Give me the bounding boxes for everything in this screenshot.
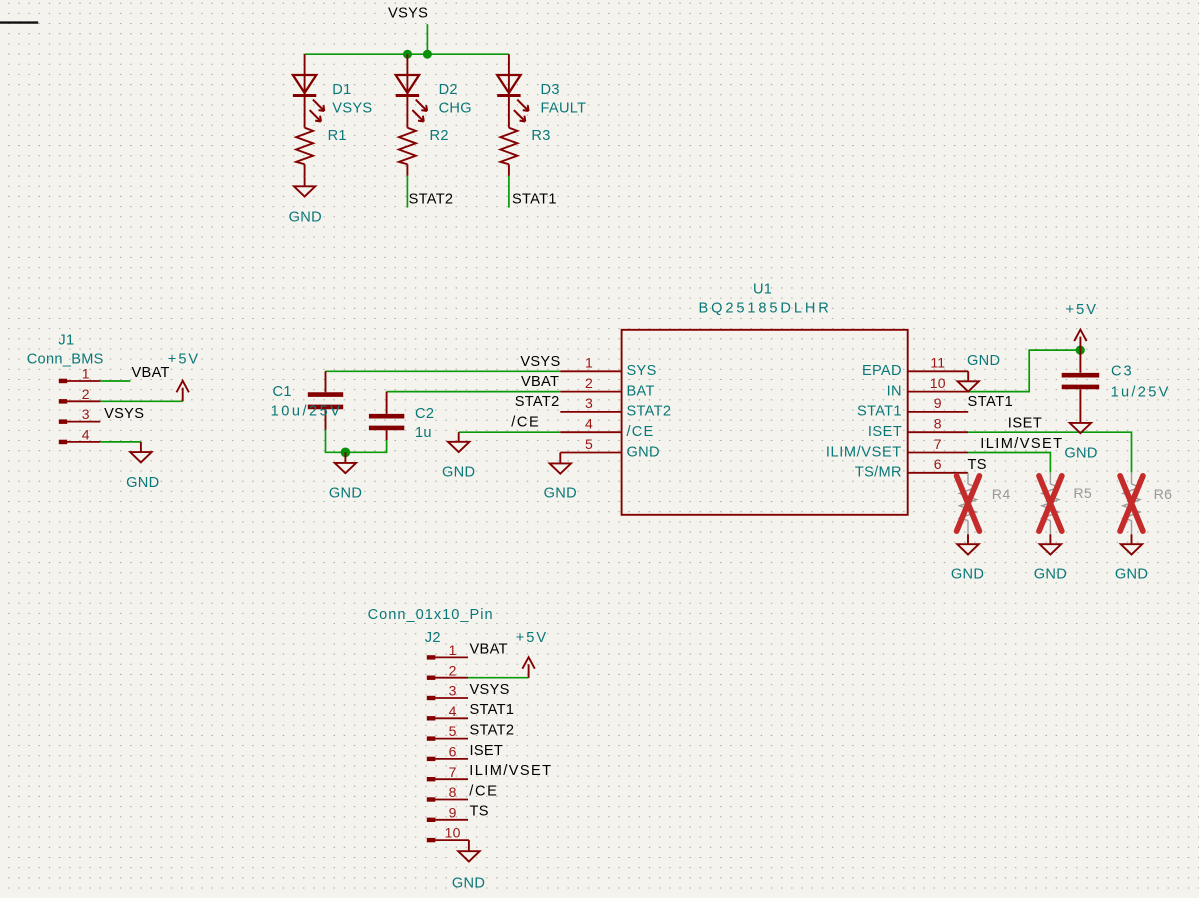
svg-text:+5V: +5V	[516, 630, 548, 646]
svg-text:VBAT: VBAT	[521, 374, 559, 390]
svg-text:6: 6	[934, 456, 942, 472]
svg-text:R5: R5	[1073, 486, 1092, 502]
svg-text:1u/25V: 1u/25V	[1111, 384, 1171, 400]
svg-text:7: 7	[449, 764, 457, 780]
svg-text:GND: GND	[289, 210, 322, 226]
svg-text:1: 1	[82, 365, 90, 381]
svg-text:7: 7	[934, 436, 942, 452]
svg-text:GND: GND	[967, 353, 1000, 369]
svg-text:CHG: CHG	[439, 100, 472, 116]
svg-text:STAT1: STAT1	[470, 702, 515, 718]
svg-text:FAULT: FAULT	[541, 100, 587, 116]
svg-text:R6: R6	[1154, 487, 1173, 503]
svg-text:GND: GND	[1034, 567, 1067, 583]
svg-text:VSYS: VSYS	[104, 406, 144, 422]
svg-text:ISET: ISET	[470, 743, 504, 759]
svg-text:3: 3	[585, 395, 593, 411]
svg-text:10: 10	[930, 375, 946, 391]
svg-text:ILIM/VSET: ILIM/VSET	[980, 436, 1063, 452]
svg-text:6: 6	[449, 744, 457, 760]
svg-text:Conn_01x10_Pin: Conn_01x10_Pin	[368, 607, 494, 623]
svg-text:/CE: /CE	[511, 414, 540, 430]
svg-text:ILIM/VSET: ILIM/VSET	[826, 444, 902, 460]
svg-text:2: 2	[585, 375, 593, 391]
svg-text:GND: GND	[627, 444, 660, 460]
svg-text:STAT1: STAT1	[857, 404, 902, 420]
svg-text:1: 1	[585, 355, 593, 371]
svg-text:STAT2: STAT2	[515, 394, 560, 410]
svg-text:R3: R3	[531, 128, 550, 144]
svg-text:+5V: +5V	[168, 352, 200, 368]
svg-text:2: 2	[82, 386, 90, 402]
svg-text:GND: GND	[544, 485, 577, 501]
svg-text:TS: TS	[470, 804, 489, 820]
svg-text:BAT: BAT	[627, 383, 655, 399]
svg-text:1u: 1u	[415, 425, 432, 441]
svg-text:3: 3	[449, 683, 457, 699]
svg-text:8: 8	[449, 784, 457, 800]
svg-text:VSYS: VSYS	[332, 100, 372, 116]
svg-text:J2: J2	[425, 630, 441, 646]
svg-text:4: 4	[82, 427, 90, 443]
svg-text:+5V: +5V	[1066, 302, 1098, 318]
svg-text:GND: GND	[126, 475, 159, 491]
svg-text:C3: C3	[1111, 364, 1134, 380]
svg-text:ILIM/VSET: ILIM/VSET	[469, 763, 552, 779]
svg-text:STAT2: STAT2	[470, 723, 515, 739]
svg-text:GND: GND	[951, 567, 984, 583]
svg-text:R1: R1	[328, 128, 347, 144]
svg-text:5: 5	[449, 723, 457, 739]
svg-text:IN: IN	[887, 383, 902, 399]
svg-text:R4: R4	[992, 487, 1011, 503]
svg-text:/CE: /CE	[469, 783, 498, 799]
svg-text:VSYS: VSYS	[520, 354, 560, 370]
svg-text:C2: C2	[415, 406, 434, 422]
svg-text:ISET: ISET	[868, 424, 902, 440]
svg-text:TS/MR: TS/MR	[855, 465, 902, 481]
svg-text:GND: GND	[329, 485, 362, 501]
svg-text:2: 2	[449, 662, 457, 678]
svg-text:10u/25V: 10u/25V	[271, 404, 343, 420]
svg-text:STAT1: STAT1	[968, 394, 1014, 410]
svg-text:9: 9	[934, 395, 942, 411]
svg-text:U1: U1	[753, 282, 772, 298]
svg-text:GND: GND	[452, 875, 485, 891]
svg-text:4: 4	[449, 703, 457, 719]
svg-text:J1: J1	[58, 333, 74, 349]
svg-text:GND: GND	[442, 465, 475, 481]
svg-text:11: 11	[930, 355, 945, 371]
svg-text:GND: GND	[1064, 445, 1097, 461]
svg-text:STAT2: STAT2	[627, 404, 672, 420]
svg-text:EPAD: EPAD	[862, 363, 902, 379]
svg-text:D1: D1	[332, 82, 351, 98]
svg-text:4: 4	[585, 416, 593, 432]
svg-text:SYS: SYS	[627, 363, 657, 379]
svg-text:GND: GND	[1115, 567, 1148, 583]
svg-text:VBAT: VBAT	[470, 641, 508, 657]
svg-text:9: 9	[449, 804, 457, 820]
svg-text:/CE: /CE	[627, 424, 655, 440]
svg-text:D2: D2	[439, 82, 458, 98]
svg-text:VSYS: VSYS	[388, 6, 428, 22]
svg-text:10: 10	[445, 825, 461, 841]
svg-text:5: 5	[585, 436, 593, 452]
svg-text:3: 3	[82, 406, 90, 422]
svg-text:BQ25185DLHR: BQ25185DLHR	[698, 300, 831, 316]
svg-text:C1: C1	[273, 384, 292, 400]
svg-text:TS: TS	[968, 457, 987, 473]
svg-text:VBAT: VBAT	[132, 365, 170, 381]
svg-text:Conn_BMS: Conn_BMS	[27, 352, 104, 368]
svg-text:1: 1	[449, 642, 457, 658]
svg-text:STAT2: STAT2	[409, 191, 454, 207]
svg-text:ISET: ISET	[1008, 416, 1042, 432]
svg-text:8: 8	[934, 416, 942, 432]
svg-text:STAT1: STAT1	[512, 191, 557, 207]
svg-text:VSYS: VSYS	[470, 682, 510, 698]
svg-text:R2: R2	[430, 128, 449, 144]
svg-text:D3: D3	[541, 82, 560, 98]
